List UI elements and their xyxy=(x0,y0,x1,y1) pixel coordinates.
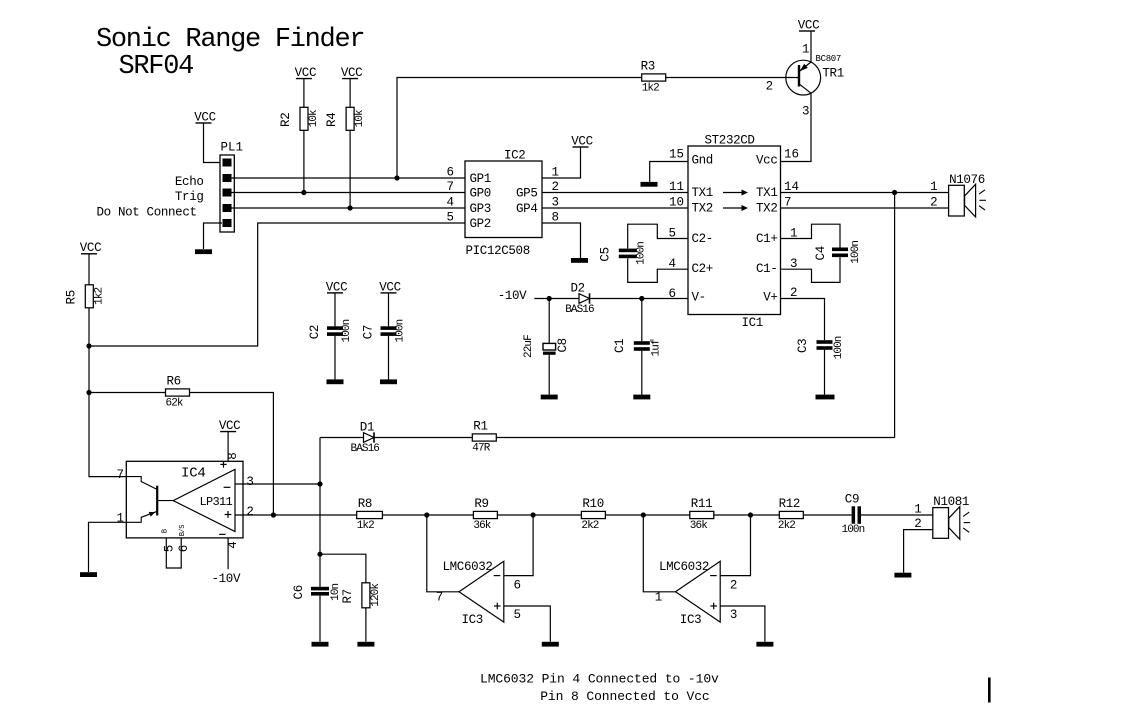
svg-text:IC3: IC3 xyxy=(462,613,483,627)
resistor R5 1k2 xyxy=(64,285,105,308)
svg-text:TX2: TX2 xyxy=(692,201,713,215)
op-amp U-IC2 PIC12C508 body xyxy=(465,149,542,259)
svg-text:GP0: GP0 xyxy=(470,187,491,201)
svg-text:-10V: -10V xyxy=(212,572,241,586)
wire riser D1-C6 xyxy=(319,438,321,587)
resistor R3 1k2 xyxy=(641,59,666,94)
wire op1 pin5 to ground xyxy=(504,606,551,642)
svg-text:7: 7 xyxy=(116,468,124,482)
cursor mark xyxy=(988,678,991,703)
wire DNC net PL1-IC2 xyxy=(232,207,466,209)
svg-text:Gnd: Gnd xyxy=(692,154,713,168)
wire op2 pin3 to ground xyxy=(720,606,765,642)
svg-text:GP1: GP1 xyxy=(470,172,491,186)
comparator IC4 LP311 body xyxy=(126,452,243,568)
connector PL1 xyxy=(220,141,243,233)
power VCC (TR1) xyxy=(798,18,819,32)
wire -10V to D2 xyxy=(534,298,579,300)
svg-text:PL1: PL1 xyxy=(221,141,244,155)
svg-text:C6: C6 xyxy=(292,585,306,599)
svg-text:100n: 100n xyxy=(395,319,407,342)
wire op2 output to node C xyxy=(643,515,675,592)
svg-text:1k2: 1k2 xyxy=(357,520,374,532)
wire riser N1076 to R1 xyxy=(894,193,896,438)
svg-text:22uF: 22uF xyxy=(523,335,535,358)
svg-text:R12: R12 xyxy=(779,497,800,511)
wire R1 to riser xyxy=(496,437,894,439)
svg-text:LP311: LP311 xyxy=(200,495,233,509)
junction R6-main line xyxy=(271,512,276,517)
capacitor C4 100n xyxy=(814,241,862,264)
svg-text:C3: C3 xyxy=(796,339,810,353)
svg-text:C4: C4 xyxy=(814,246,828,260)
ground C2 xyxy=(327,379,344,384)
svg-text:8: 8 xyxy=(226,452,240,460)
svg-text:2k2: 2k2 xyxy=(581,520,598,532)
power VCC (C7) xyxy=(379,280,400,294)
svg-text:D1: D1 xyxy=(360,421,374,435)
wire R6 to main node xyxy=(190,393,274,516)
wire TX2 IC2-IC1 xyxy=(542,207,688,209)
pin numbers IC2 right xyxy=(552,166,560,225)
svg-text:7: 7 xyxy=(446,180,454,194)
wire IC1 pin15 to ground xyxy=(650,162,688,183)
svg-text:6: 6 xyxy=(177,545,191,553)
svg-text:16: 16 xyxy=(784,148,799,162)
svg-text:TR1: TR1 xyxy=(822,67,843,81)
resistor R4 10k xyxy=(325,107,366,130)
svg-text:IC3: IC3 xyxy=(680,613,701,627)
svg-text:C5: C5 xyxy=(599,247,613,261)
resistor R11 36k xyxy=(690,497,714,532)
wire IC2 pin1 to VCC xyxy=(542,147,581,178)
wire op1 output to node A xyxy=(427,515,459,592)
junction R5-R6 xyxy=(86,390,91,395)
svg-text:GP4: GP4 xyxy=(516,202,537,216)
wire IC1 pin5 to C5 xyxy=(628,224,688,248)
transducer N1076 xyxy=(930,173,986,217)
resistor R8 1k2 xyxy=(357,497,383,532)
junction node B xyxy=(531,512,536,517)
wire C9 to N1081 pin1 xyxy=(861,514,933,516)
svg-text:1uf: 1uf xyxy=(651,339,663,356)
svg-text:3: 3 xyxy=(246,475,254,489)
wire R7 to ground xyxy=(365,608,367,642)
wire Echo net up to R3 xyxy=(397,78,642,179)
wire VCC to TR1 emitter xyxy=(810,31,812,62)
resistor R6 62k xyxy=(166,374,190,409)
svg-text:BC807: BC807 xyxy=(816,54,842,64)
svg-text:10k: 10k xyxy=(308,109,320,127)
svg-text:R1: R1 xyxy=(473,419,487,433)
svg-text:2: 2 xyxy=(766,79,774,93)
svg-text:4: 4 xyxy=(446,196,454,210)
svg-text:2k2: 2k2 xyxy=(778,520,795,532)
svg-text:R5: R5 xyxy=(64,290,78,304)
ground N1081 pin2 xyxy=(894,573,911,578)
svg-text:C2+: C2+ xyxy=(692,262,713,276)
power VCC (IC2 pin1) xyxy=(571,134,592,148)
transducer N1081 xyxy=(914,495,970,539)
wire PL1 pin5 to ground xyxy=(204,223,223,249)
capacitor C6 10n xyxy=(292,583,342,641)
svg-text:2: 2 xyxy=(730,579,738,593)
svg-text:BAS16: BAS16 xyxy=(351,443,380,455)
wire TX1 IC2-IC1 xyxy=(542,192,688,194)
junction R5-GP2 net xyxy=(86,343,91,348)
svg-text:Trig: Trig xyxy=(175,190,204,204)
svg-text:ST232CD: ST232CD xyxy=(705,134,755,148)
wire TX1 out to N1076 pin1 xyxy=(781,192,949,194)
svg-text:15: 15 xyxy=(669,148,684,162)
wire node to R7 xyxy=(320,554,366,583)
wire D1 line xyxy=(320,437,364,439)
wire VCC to R5 xyxy=(88,254,90,285)
power VCC (C2) xyxy=(326,280,347,294)
wire IC1 pin1 to C4 xyxy=(781,224,841,247)
ground C1 xyxy=(633,395,650,400)
svg-text:3: 3 xyxy=(802,104,810,118)
svg-text:C1+: C1+ xyxy=(756,232,777,246)
ground op1 pin5 xyxy=(542,642,559,647)
wire C7 to ground xyxy=(388,336,390,380)
wire R8 to R9 xyxy=(382,514,473,516)
power VCC (R2) xyxy=(295,66,316,80)
wire VCC to R4 xyxy=(349,79,351,108)
wire Echo net PL1-IC2 xyxy=(232,177,466,179)
svg-text:LMC6032 Pin 4 Connected to -10: LMC6032 Pin 4 Connected to -10v xyxy=(480,671,719,686)
svg-text:Pin 8 Connected to Vcc: Pin 8 Connected to Vcc xyxy=(540,689,709,704)
op-amp IC3b LMC6032 xyxy=(655,560,738,627)
capacitor C1 1uf xyxy=(613,299,663,395)
svg-text:R2: R2 xyxy=(279,113,293,127)
svg-text:36k: 36k xyxy=(473,520,491,532)
ground PL1 pin5 xyxy=(195,249,212,254)
wire IC4 pin4 to -10V xyxy=(227,538,229,569)
svg-text:N1081: N1081 xyxy=(933,495,969,509)
ground IC4 pin1 xyxy=(80,572,97,577)
resistor R7 120k xyxy=(341,583,382,608)
svg-text:120k: 120k xyxy=(370,583,382,607)
power VCC (IC4 pin8) xyxy=(219,419,240,433)
svg-text:C1: C1 xyxy=(613,339,627,353)
svg-text:R8: R8 xyxy=(358,497,372,511)
svg-text:100n: 100n xyxy=(635,242,647,265)
svg-text:36k: 36k xyxy=(690,520,708,532)
svg-text:IC4: IC4 xyxy=(181,466,206,482)
svg-text:GP5: GP5 xyxy=(516,187,537,201)
svg-text:C2: C2 xyxy=(308,325,322,339)
svg-text:-10V: -10V xyxy=(498,289,527,303)
wire IC4 pin1 to ground xyxy=(89,522,127,572)
svg-text:C7: C7 xyxy=(362,325,376,339)
svg-text:1: 1 xyxy=(930,180,938,194)
junction pin3-D1 riser xyxy=(317,481,322,486)
svg-text:B/S: B/S xyxy=(179,525,187,536)
junction R4-DNC xyxy=(348,205,353,210)
capacitor C5 100n xyxy=(599,242,648,265)
svg-text:6: 6 xyxy=(514,579,522,593)
svg-text:5: 5 xyxy=(162,545,176,553)
svg-text:IC2: IC2 xyxy=(504,149,525,163)
svg-text:Echo: Echo xyxy=(175,175,204,189)
wire IC2 pin8 to ground xyxy=(542,223,581,258)
svg-text:2: 2 xyxy=(246,505,254,519)
resistor R12 2k2 xyxy=(778,497,803,532)
resistor R1 47R xyxy=(472,419,496,454)
junction TX1-R1 riser xyxy=(892,190,897,195)
svg-text:100n: 100n xyxy=(341,319,353,342)
svg-text:1: 1 xyxy=(914,503,922,517)
svg-text:Sonic Range Finder: Sonic Range Finder xyxy=(96,25,364,55)
transistor TR1 BC807 xyxy=(786,43,844,119)
wire IC4 pin2 to R8 xyxy=(235,514,357,516)
svg-text:1: 1 xyxy=(116,512,124,526)
junction C6-R7 xyxy=(317,552,322,557)
junction C1 xyxy=(639,296,644,301)
svg-text:TX1: TX1 xyxy=(756,186,777,200)
wire R11 to R12 xyxy=(714,514,780,516)
ground C7 xyxy=(380,379,397,384)
ground C8 xyxy=(541,395,558,400)
wire C2 to ground xyxy=(334,336,336,380)
junction C8 xyxy=(547,296,552,301)
capacitor C8 22uF xyxy=(523,299,570,395)
wire op2 pin2 to node D xyxy=(720,515,750,576)
ground IC2 pin8 xyxy=(571,258,588,263)
svg-text:B: B xyxy=(162,529,170,533)
svg-text:C8: C8 xyxy=(556,338,570,352)
svg-text:100n: 100n xyxy=(833,336,845,359)
diode D2 BAS16 xyxy=(565,282,594,317)
capacitor C2 100n xyxy=(308,319,353,342)
wire IC1 pin2 to C3 xyxy=(781,299,825,341)
IC U1 ST232CD body xyxy=(688,134,781,331)
svg-text:D2: D2 xyxy=(571,282,585,296)
wire op1 pin6 to node B xyxy=(504,515,533,576)
svg-text:5: 5 xyxy=(514,608,522,622)
svg-text:VCC: VCC xyxy=(80,241,101,255)
svg-text:VCC: VCC xyxy=(571,134,592,148)
capacitor C3 100n xyxy=(796,336,845,394)
svg-text:Vcc: Vcc xyxy=(756,154,777,168)
junction Echo-R3 riser xyxy=(394,175,399,180)
ground C3 xyxy=(816,395,835,400)
svg-text:IC1: IC1 xyxy=(742,316,763,330)
wire R4 to DNC net xyxy=(349,130,351,208)
wire VCC to R2 xyxy=(303,79,305,108)
svg-text:7: 7 xyxy=(436,591,444,605)
wire R5 node to R6 xyxy=(89,392,166,394)
svg-text:6: 6 xyxy=(446,166,454,180)
power VCC (R4) xyxy=(341,66,362,80)
svg-text:10k: 10k xyxy=(354,109,366,127)
svg-text:3: 3 xyxy=(730,608,738,622)
svg-text:47R: 47R xyxy=(472,443,490,455)
svg-text:GP3: GP3 xyxy=(470,202,491,216)
pin numbers IC1 right xyxy=(784,180,799,300)
power VCC (PL1 pin1) xyxy=(194,110,215,124)
svg-text:PIC12C508: PIC12C508 xyxy=(466,244,530,258)
svg-text:1: 1 xyxy=(655,591,663,605)
svg-text:2: 2 xyxy=(930,196,938,210)
svg-text:1k2: 1k2 xyxy=(642,83,659,95)
wire D2 to IC1 pin6 xyxy=(590,298,689,300)
svg-text:V+: V+ xyxy=(763,291,777,305)
svg-text:TX1: TX1 xyxy=(692,186,713,200)
junction node C xyxy=(641,512,646,517)
op-amp IC3a LMC6032 xyxy=(436,560,521,627)
wire N1081 pin2 to ground xyxy=(904,530,933,573)
svg-text:R11: R11 xyxy=(691,497,712,511)
ground R7 xyxy=(357,642,374,647)
wire IC2 pin5 GP2 to R5 node xyxy=(89,223,465,346)
wire VCC to IC4 pin8 xyxy=(227,432,229,462)
svg-text:TX2: TX2 xyxy=(756,201,777,215)
svg-text:C9: C9 xyxy=(845,492,859,506)
wire VCC to C7 xyxy=(388,293,390,326)
wire Trig net PL1-IC2 xyxy=(232,192,466,194)
svg-text:R6: R6 xyxy=(167,374,181,388)
wire R9 to R10 xyxy=(497,514,582,516)
svg-text:R9: R9 xyxy=(474,497,488,511)
resistor R9 36k xyxy=(473,497,497,532)
svg-text:LMC6032: LMC6032 xyxy=(443,560,493,574)
wire VCC to C2 xyxy=(334,293,336,326)
wire D1 to R1 xyxy=(374,437,472,439)
svg-text:BAS16: BAS16 xyxy=(565,304,594,316)
arrow TX1 internal xyxy=(723,192,744,194)
resistor R10 2k2 xyxy=(581,497,605,532)
pin numbers IC2 left xyxy=(446,166,454,225)
svg-text:R7: R7 xyxy=(341,589,355,603)
svg-text:62k: 62k xyxy=(166,398,184,410)
wire R12 to C9 xyxy=(803,514,852,516)
wire R3 to TR1 base xyxy=(666,77,799,79)
ground IC1 pin15 xyxy=(641,182,658,187)
svg-text:R4: R4 xyxy=(325,113,339,127)
svg-text:100n: 100n xyxy=(842,524,865,536)
svg-text:LMC6032: LMC6032 xyxy=(659,560,709,574)
junction R2-Trig xyxy=(301,190,306,195)
ground op2 pin3 xyxy=(756,642,773,647)
power VCC (R5) xyxy=(80,241,101,255)
junction node D xyxy=(748,512,753,517)
capacitor C9 100n xyxy=(842,492,865,536)
pin numbers IC1 left xyxy=(668,148,684,302)
diode D1 BAS16 xyxy=(351,421,380,456)
svg-text:100n: 100n xyxy=(850,241,862,264)
ground C6 xyxy=(312,642,329,647)
svg-text:1: 1 xyxy=(802,43,810,57)
wire C4 to IC1 pin3 xyxy=(781,257,841,282)
wire R5 down to IC4 pin7 xyxy=(89,308,126,477)
svg-text:R3: R3 xyxy=(641,59,655,73)
svg-text:GP2: GP2 xyxy=(470,217,491,231)
wire R2 to Trig net xyxy=(303,130,305,192)
svg-text:V-: V- xyxy=(692,291,706,305)
wire R10 to R11 xyxy=(605,514,689,516)
svg-text:SRF04: SRF04 xyxy=(119,52,194,82)
resistor R2 10k xyxy=(279,107,320,130)
wire VCC to PL1 pin 1 xyxy=(204,123,223,163)
wire IC4 pin3 out xyxy=(235,483,320,485)
arrow TX2 internal xyxy=(723,207,744,209)
wire TR1 collector to IC1 pin16 xyxy=(781,93,812,161)
junction node A xyxy=(424,512,429,517)
pin numbers IC4 xyxy=(116,468,253,526)
wire TX2 out to N1076 pin2 xyxy=(781,207,949,209)
svg-text:C1-: C1- xyxy=(756,262,777,276)
svg-text:1k2: 1k2 xyxy=(93,287,105,304)
svg-text:R10: R10 xyxy=(582,497,603,511)
wire C5 to IC1 pin4 xyxy=(628,258,688,282)
svg-text:Do Not Connect: Do Not Connect xyxy=(97,206,197,220)
capacitor C7 100n xyxy=(362,319,407,342)
svg-text:N1076: N1076 xyxy=(949,173,985,187)
svg-text:C2-: C2- xyxy=(692,232,713,246)
